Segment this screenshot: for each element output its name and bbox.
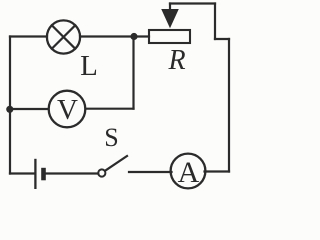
svg-text:R: R [167,45,185,76]
wire: battery to switch [46,172,99,174]
wire: step to outer right [215,38,229,40]
lamp L (circle with X) [47,20,80,53]
wire: top-left horizontal from left corner to lamp [10,35,47,37]
svg-text:A: A [178,156,200,189]
node: junction of lamp, rheostat and voltmeter branch [130,33,137,40]
svg-text:V: V [57,94,78,126]
switch S (pivot + lever) [98,156,127,177]
wire: top from slider to top-right corner [170,2,215,4]
wire: voltmeter to junction riser [86,108,133,110]
wire: bottom-left to battery [10,172,34,174]
wire: lamp to rheostat (through junction) [80,35,149,37]
rheostat slider arrow [162,4,178,28]
wire: riser up to junction [132,37,134,109]
wire: ammeter to switch [129,171,172,173]
wire: left vertical branch [9,37,11,174]
wire: left vertical to voltmeter [10,108,48,110]
node: junction of voltmeter branch on left vertical [6,106,13,113]
battery cell [35,159,43,189]
ammeter A [171,154,206,189]
rheostat R body [149,30,190,43]
svg-text:L: L [80,50,98,82]
wire: bottom-right to ammeter [205,170,230,172]
wire: right vertical down to ammeter row [228,39,230,172]
wire: right upper vertical [214,4,216,40]
voltmeter V [49,91,86,128]
svg-text:S: S [104,123,118,152]
